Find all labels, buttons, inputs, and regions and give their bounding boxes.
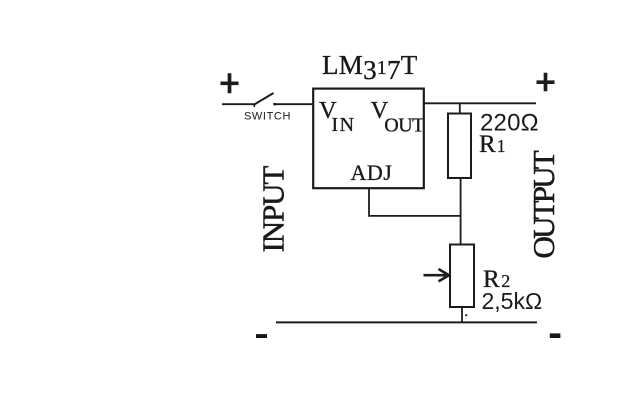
svg-text:SWITCH: SWITCH: [244, 111, 291, 123]
svg-text:OUT: OUT: [384, 114, 424, 136]
wire R2 bottom stub: [461, 307, 463, 322]
resistor R1 body: [448, 114, 471, 179]
potentiometer R2 body: [450, 245, 474, 308]
svg-text:ADJ: ADJ: [351, 160, 393, 185]
wire bottom negative rail: [276, 321, 537, 323]
switch contact tick: [273, 103, 276, 105]
wire ADJ pin down and right to node: [369, 188, 461, 216]
plus sign (output +): [537, 73, 555, 91]
solder speck near R2 bottom: [465, 314, 467, 316]
svg-text:INPUT: INPUT: [256, 166, 291, 253]
IC U1 LM317T body: [313, 89, 424, 189]
switch pivot tick: [253, 104, 255, 107]
minus sign (output -): [550, 333, 561, 338]
wire input to switch: [222, 103, 255, 105]
svg-text:OUTPUT: OUTPUT: [526, 150, 561, 258]
wire switch to regulator VIN: [276, 103, 314, 105]
wire VOUT to output rail: [424, 102, 536, 104]
svg-text:R1: R1: [479, 131, 506, 158]
svg-text:LM317T: LM317T: [322, 50, 418, 85]
minus sign (input -): [256, 334, 267, 338]
wire R1 bottom to R2 top (vertical): [460, 178, 462, 245]
svg-text:2,5kΩ: 2,5kΩ: [482, 288, 543, 314]
wire R1 top stub: [459, 103, 461, 113]
plus sign (input +): [221, 73, 239, 93]
svg-text:IN: IN: [332, 114, 356, 136]
potentiometer R2 wiper arrow: [424, 269, 450, 281]
switch S1 blade: [255, 93, 274, 104]
